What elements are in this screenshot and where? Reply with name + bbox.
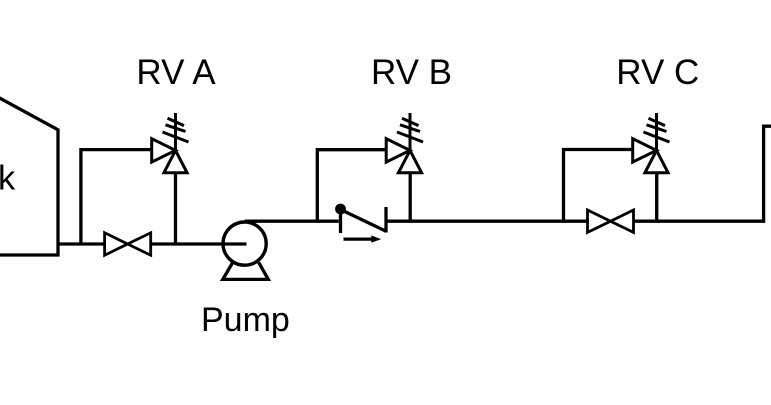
svg-text:Pump: Pump	[201, 301, 290, 339]
svg-text:Tank: Tank	[0, 160, 16, 198]
svg-text:RV A: RV A	[136, 53, 216, 92]
svg-text:RV C: RV C	[616, 53, 699, 92]
svg-text:RV B: RV B	[371, 53, 452, 92]
